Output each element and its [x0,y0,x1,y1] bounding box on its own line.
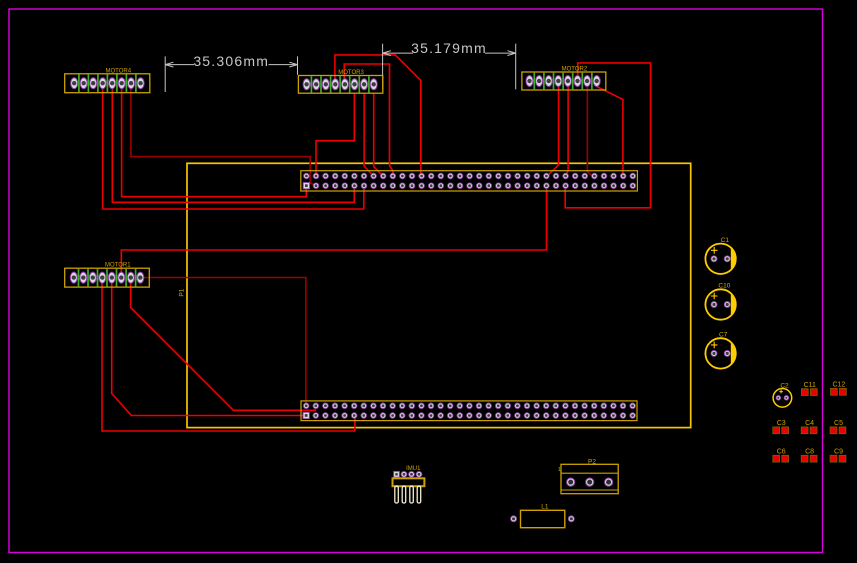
capacitor C1 [705,237,735,274]
wire MOTOR2 pad7 to J2 (inner layer) [587,86,592,176]
capacitor C3 [773,420,789,434]
svg-text:C5: C5 [834,420,843,427]
wire MOTOR1 pad5 to J3 pad1 [112,283,307,416]
wire MOTOR3 pad4 to J2 [335,55,421,176]
wire MOTOR3 pad5 to J2 [344,64,393,176]
connector P2 [558,458,618,493]
svg-text:C11: C11 [804,382,816,389]
wire MOTOR2 pad5 to J2 [566,86,568,176]
svg-text:C6: C6 [777,448,786,455]
capacitor C12 [831,382,847,396]
capacitor C11 [801,382,817,396]
wire MOTOR4 pad4 to J2 [103,88,364,209]
capacitor C8 [801,448,817,462]
wire MOTOR4 pad6 to J2 pad1 [122,88,307,197]
connector MOTOR3 [298,70,382,93]
wire MOTOR2 pad8 to J2 [597,87,623,177]
svg-text:C8: C8 [805,448,814,455]
svg-text:P1: P1 [179,288,186,296]
wire MOTOR1 pad7 to J3 [131,283,316,410]
wire MOTOR3 pad7 to J2 [364,93,373,176]
capacitor C10 [705,283,735,320]
sensor module IMU1 [393,466,425,503]
connector MOTOR1 [65,263,150,287]
svg-text:35.179mm: 35.179mm [411,40,487,56]
connector MOTOR4 [65,68,150,92]
wire MOTOR3 pad6 to J2 [316,93,354,176]
svg-text:C12: C12 [832,382,845,389]
inductor L1 [511,504,575,528]
wire MOTOR2 pad4 to J2 [547,86,558,176]
pin header J3 bottom [301,401,637,421]
board outline P1 [179,163,691,427]
wire MOTOR2 pad6 loop to J2 [565,63,650,208]
svg-text:L1: L1 [541,504,549,511]
pin header J2 top [301,171,638,191]
svg-text:35.306mm: 35.306mm [193,53,269,69]
capacitor C7 [705,332,735,369]
wire MOTOR1 pad4 to J3 [102,283,355,431]
wire MOTOR3 pad8 to J2 [374,93,383,176]
capacitor C4 [801,420,817,434]
svg-text:C3: C3 [777,420,786,427]
capacitor C9 [830,448,846,462]
dimension 35.179mm [383,40,516,89]
wire MOTOR4 pad7 to J2 (inner layer) [131,88,316,186]
capacitor C2 [773,382,792,407]
dimension 35.306mm [165,53,297,92]
wire MOTOR1 pad6 to J2 [121,186,546,272]
svg-text:C4: C4 [805,420,814,427]
wire MOTOR1 pad8 to J3 (inner layer) [140,278,306,406]
capacitor C5 [830,420,846,434]
connector MOTOR2 [522,67,606,91]
wire MOTOR4 pad5 to J2 [112,88,354,202]
svg-text:C9: C9 [834,448,843,455]
capacitor C6 [773,448,789,462]
svg-text:C1: C1 [721,237,730,244]
